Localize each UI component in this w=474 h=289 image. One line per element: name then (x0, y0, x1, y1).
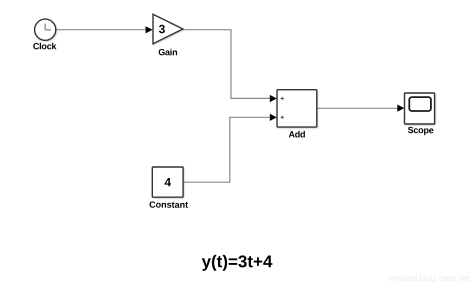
svg-text:Scope: Scope (408, 125, 434, 135)
wire Constant to Add (with corner) (183, 117, 270, 182)
label Clock (33, 41, 58, 51)
svg-text:Add: Add (288, 129, 305, 139)
label Scope (408, 125, 434, 135)
svg-text:Gain: Gain (158, 47, 177, 57)
svg-text:hmwind.blog.csdn.net: hmwind.blog.csdn.net (388, 273, 471, 283)
watermark (388, 273, 471, 283)
wire Clock to Gain (56, 29, 147, 31)
port sign + (input 2) (281, 116, 284, 119)
label Add (288, 129, 305, 139)
arrowhead into Add input 2 (270, 114, 277, 121)
svg-text:Clock: Clock (33, 41, 58, 51)
constant block Constant (152, 167, 183, 197)
svg-text:4: 4 (164, 175, 171, 189)
arrowhead into Add input 1 (270, 95, 277, 102)
clock block Clock (35, 19, 56, 40)
value label 3 (159, 22, 166, 36)
arrowhead into Scope (397, 105, 404, 112)
annotation y(t)=3t+4 (202, 252, 273, 271)
label Gain (158, 47, 177, 57)
wire Add to Scope (317, 107, 398, 109)
scope block Scope (405, 93, 435, 124)
arrowhead into Gain (146, 26, 153, 33)
gain block Gain (triangle) (153, 14, 183, 44)
wire Gain to Add (with corner) (183, 30, 271, 99)
svg-text:Constant: Constant (149, 200, 188, 210)
port sign + (input 1) (281, 97, 284, 100)
svg-text:y(t)=3t+4: y(t)=3t+4 (202, 252, 273, 271)
sum block Add (277, 90, 317, 127)
label Constant (149, 200, 188, 210)
svg-text:3: 3 (159, 22, 166, 36)
value label 4 (164, 175, 171, 189)
